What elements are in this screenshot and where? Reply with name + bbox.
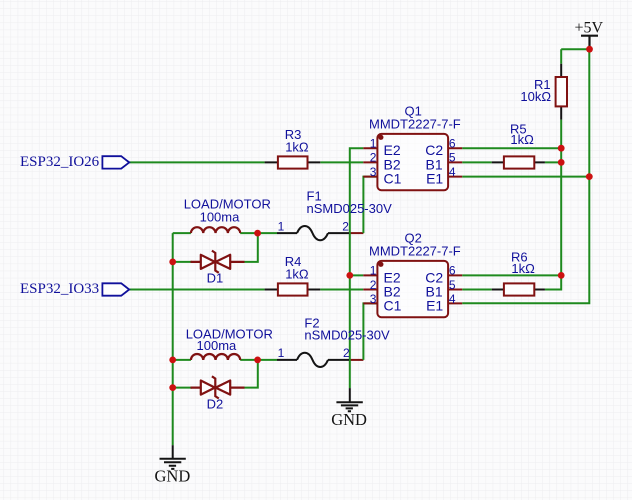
svg-text:6: 6 <box>449 264 456 278</box>
junction Q1.E1 / +5V vertical <box>586 173 593 180</box>
wire: F1 to Q1 C1 <box>349 177 377 234</box>
wire: ESP32_IO33 to R4 <box>129 289 264 291</box>
svg-text:GND: GND <box>331 410 367 429</box>
wire: load1 right to F1 <box>240 232 277 234</box>
svg-text:1: 1 <box>278 346 285 360</box>
junction load1 right <box>254 230 261 237</box>
wire: F2 to Q2 C1 <box>349 303 377 360</box>
svg-text:E1: E1 <box>426 171 443 187</box>
junction load2 right <box>254 357 261 364</box>
wire: Q1 B1 row to R5 <box>462 161 561 163</box>
resistor R6 <box>492 250 545 296</box>
wire: net +5V/R1 vertical A x=561 <box>545 120 561 290</box>
svg-text:2: 2 <box>370 278 377 292</box>
svg-text:3: 3 <box>370 292 377 306</box>
svg-text:ESP32_IO33: ESP32_IO33 <box>20 281 99 297</box>
diode D1 (TVS) <box>191 251 245 286</box>
net flag ESP32_IO26 <box>20 154 129 170</box>
svg-text:nSMD025-30V: nSMD025-30V <box>304 328 390 343</box>
svg-text:100ma: 100ma <box>200 210 241 225</box>
svg-text:6: 6 <box>449 136 456 150</box>
svg-text:E1: E1 <box>426 297 443 313</box>
wire: Q2 C2 row to vertical A <box>462 274 561 276</box>
junction D2 left <box>169 384 176 391</box>
svg-text:1kΩ: 1kΩ <box>285 267 309 282</box>
inductor LOAD/MOTOR 2 <box>186 326 273 360</box>
wire: R4 to Q2 B2 <box>320 289 363 291</box>
junction D1 left <box>169 259 176 266</box>
wire: GND left trunk x=172.7 <box>172 233 174 445</box>
wire: D2 left <box>173 387 192 389</box>
resistor R4 <box>265 254 321 296</box>
svg-text:3: 3 <box>370 165 377 179</box>
svg-text:2: 2 <box>343 346 350 360</box>
junction Q1.C2 / vertical A <box>558 145 565 152</box>
junction load2 left <box>169 357 176 364</box>
wire: load1 left <box>173 232 191 234</box>
svg-text:1kΩ: 1kΩ <box>510 132 534 147</box>
svg-text:GND: GND <box>155 466 191 485</box>
svg-text:1: 1 <box>370 136 377 150</box>
net flag ESP32_IO33 <box>20 281 129 297</box>
svg-text:10kΩ: 10kΩ <box>520 89 551 104</box>
inductor LOAD/MOTOR 1 <box>184 196 271 233</box>
svg-text:C1: C1 <box>384 171 402 187</box>
wire: D1 left <box>173 261 192 263</box>
svg-text:1kΩ: 1kΩ <box>285 140 309 155</box>
resistor R3 <box>265 127 321 169</box>
ground GND left <box>155 445 191 485</box>
svg-text:4: 4 <box>449 292 456 306</box>
svg-text:D2: D2 <box>207 396 224 411</box>
wire: Q1/Q2 E2 trunk to GND (x=350) <box>350 148 364 388</box>
svg-text:1: 1 <box>370 264 377 278</box>
svg-text:5: 5 <box>449 278 456 292</box>
svg-text:1: 1 <box>278 219 285 233</box>
transistor Q2 MMDT2227-7-F <box>363 231 462 318</box>
wire: load2 left <box>173 359 191 361</box>
wire: Q1 E1 row to vertical B <box>462 176 589 178</box>
svg-text:2: 2 <box>342 219 349 233</box>
diode D2 (TVS) <box>191 376 245 411</box>
svg-text:nSMD025-30V: nSMD025-30V <box>307 201 393 216</box>
wire: Q2 B1 row to R6 <box>462 289 492 291</box>
fuse F1 nSMD025-30V <box>277 189 392 241</box>
junction Q2.C2 / vertical A <box>558 272 565 279</box>
svg-text:C1: C1 <box>384 297 402 313</box>
svg-text:MMDT2227-7-F: MMDT2227-7-F <box>369 117 461 132</box>
wire: R3 to Q1 B2 <box>320 161 363 163</box>
svg-text:5: 5 <box>449 151 456 165</box>
fuse F2 nSMD025-30V <box>277 315 390 367</box>
junction +5V node <box>586 46 593 53</box>
wire: ESP32_IO26 to R3 <box>129 161 264 163</box>
ground GND middle <box>331 388 367 429</box>
junction E2 trunk / Q2.E2 <box>346 272 353 279</box>
svg-text:1kΩ: 1kΩ <box>511 261 535 276</box>
wire: Q1 C2 row to vertical A <box>462 147 561 149</box>
resistor R1 <box>520 64 567 120</box>
wire: +5V vertical B x=589 <box>462 49 589 303</box>
svg-text:ESP32_IO26: ESP32_IO26 <box>20 154 100 170</box>
svg-text:2: 2 <box>370 151 377 165</box>
transistor Q1 MMDT2227-7-F <box>363 104 462 191</box>
wire: +5V to R1 top <box>561 49 589 64</box>
svg-text:+5V: +5V <box>575 19 604 36</box>
svg-text:D1: D1 <box>207 271 224 286</box>
wire: load2 right to F2 <box>240 359 277 361</box>
wire: D1 right up to load1 <box>245 233 258 262</box>
svg-text:100ma: 100ma <box>197 338 238 353</box>
resistor R5 <box>492 122 545 169</box>
junction R5 / vertical A <box>558 159 565 166</box>
wire: D2 right up to load2 <box>245 360 258 388</box>
power flag +5V <box>575 19 604 49</box>
svg-text:MMDT2227-7-F: MMDT2227-7-F <box>369 244 461 259</box>
svg-text:4: 4 <box>449 165 456 179</box>
